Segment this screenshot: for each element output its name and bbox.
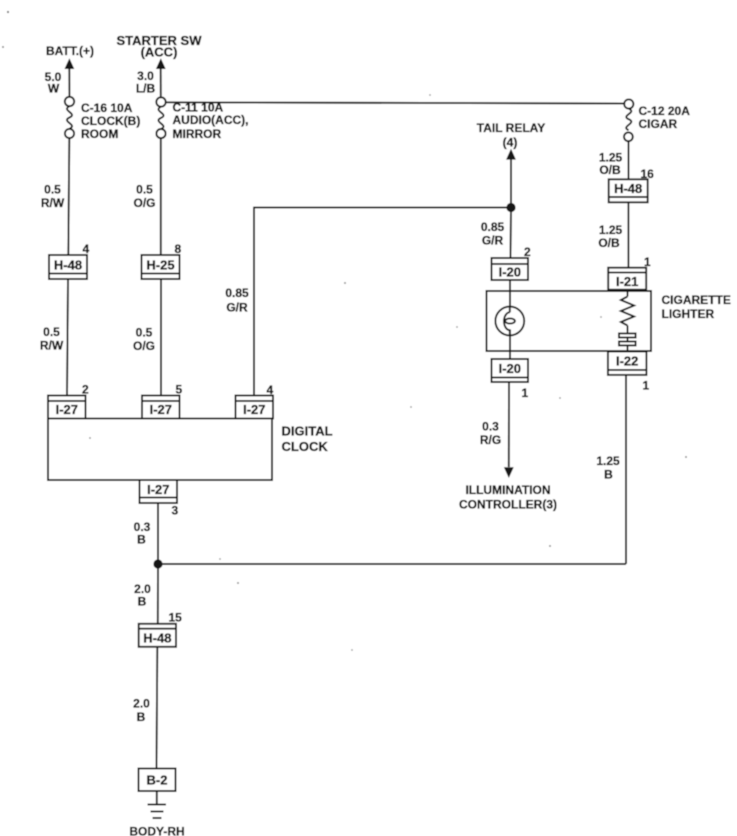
svg-text:H-48: H-48 [54, 258, 82, 273]
connector I-21 pin 1 [608, 268, 646, 290]
wire [253, 207, 255, 396]
connector H-25 [142, 255, 180, 279]
svg-text:BODY-RH: BODY-RH [129, 825, 184, 836]
wire [67, 279, 68, 396]
node BODY-RH [129, 825, 184, 836]
junction [153, 559, 162, 568]
wire [627, 202, 629, 267]
pin 16 [641, 167, 655, 181]
connector I-27 pin 2 [48, 396, 86, 419]
svg-text:0.5: 0.5 [43, 325, 60, 339]
arrow to ILLUMINATION CONTROLLER [504, 467, 514, 478]
svg-text:0.3: 0.3 [482, 420, 499, 434]
svg-text:2.0: 2.0 [133, 697, 150, 711]
node BATT.(+) [46, 44, 94, 58]
wire [628, 141, 630, 179]
svg-text:R/W: R/W [41, 196, 65, 210]
svg-text:1: 1 [522, 386, 529, 400]
svg-text:I-27: I-27 [243, 402, 265, 417]
wire [510, 208, 513, 259]
svg-text:I-27: I-27 [150, 402, 172, 417]
svg-text:H-48: H-48 [143, 631, 171, 646]
connector B-2 [139, 769, 176, 792]
svg-text:I-27: I-27 [56, 402, 78, 417]
wire [160, 279, 162, 396]
wire [254, 207, 511, 209]
svg-text:TAIL RELAY: TAIL RELAY [477, 121, 545, 135]
connector I-27 pin 3 [140, 480, 178, 503]
svg-text:1.25: 1.25 [596, 454, 620, 468]
wire [157, 564, 159, 624]
svg-text:3: 3 [172, 504, 179, 518]
pin 8 [175, 242, 182, 256]
svg-text:C-16 10A: C-16 10A [81, 101, 133, 115]
svg-text:R/W: R/W [40, 339, 64, 353]
pin 1 [522, 386, 529, 400]
wire [158, 563, 626, 565]
lamp (illumination bulb) [495, 307, 524, 336]
svg-text:0.85: 0.85 [225, 286, 249, 300]
svg-text:4: 4 [83, 242, 90, 256]
fuse C-12 20A [624, 99, 633, 141]
svg-text:I-21: I-21 [616, 274, 638, 289]
svg-text:CLOCK: CLOCK [282, 439, 329, 454]
wire [625, 375, 627, 564]
svg-text:B: B [137, 710, 146, 724]
connector H-48 pin 15 [139, 624, 176, 647]
fuse label C-11 10A AUDIO(ACC), MIRROR [173, 101, 249, 142]
pin 4 [267, 383, 274, 397]
label 0.5 R/W [40, 325, 64, 353]
junction [506, 203, 515, 212]
label 0.3 R/G [480, 420, 501, 448]
pin 2 [82, 383, 89, 397]
wire [160, 69, 162, 98]
svg-text:8: 8 [175, 242, 182, 256]
svg-text:ILLUMINATION: ILLUMINATION [465, 483, 550, 497]
wire to fuse C-12 [166, 102, 624, 103]
pin 4 [83, 242, 90, 256]
svg-text:G/R: G/R [226, 301, 248, 315]
pin 3 [172, 504, 179, 518]
label 0.5 O/G [133, 183, 155, 211]
arrow to BATT.(+) [65, 58, 75, 69]
svg-text:0.5: 0.5 [136, 326, 153, 340]
wire [156, 647, 159, 769]
node STARTER SW (ACC) [117, 33, 203, 60]
pin 1 [643, 379, 650, 393]
svg-text:0.5: 0.5 [136, 183, 153, 197]
wire [508, 382, 510, 467]
svg-text:0.85: 0.85 [481, 220, 505, 234]
svg-text:2: 2 [524, 245, 531, 259]
svg-text:AUDIO(ACC),: AUDIO(ACC), [173, 113, 249, 127]
svg-text:CLOCK(B): CLOCK(B) [81, 114, 140, 128]
svg-text:R/G: R/G [480, 433, 501, 447]
label 1.25 O/B [598, 223, 622, 250]
connector I-27 pin 4 [236, 396, 274, 419]
svg-text:0.5: 0.5 [44, 183, 61, 197]
svg-text:I-22: I-22 [616, 354, 638, 369]
svg-text:H-25: H-25 [146, 258, 174, 273]
node TAIL RELAY (4) [477, 121, 545, 150]
connector I-20 pin 1 [492, 359, 529, 382]
svg-text:B: B [137, 533, 146, 547]
pin 1 [644, 255, 651, 269]
label 0.5 O/G [133, 326, 155, 354]
svg-text:CONTROLLER(3): CONTROLLER(3) [459, 498, 557, 512]
svg-text:H-48: H-48 [614, 181, 642, 196]
cigarette lighter box [487, 291, 652, 351]
connector I-22 pin 1 [608, 352, 647, 375]
node ILLUMINATION CONTROLLER(3) [459, 483, 557, 512]
arrow to TAIL RELAY [506, 149, 516, 160]
wire [509, 280, 511, 307]
label 0.85 G/R [225, 286, 249, 315]
svg-text:C-12 20A: C-12 20A [639, 104, 691, 118]
fuse label C-16 10A CLOCK(B) ROOM [81, 101, 140, 141]
svg-text:(4): (4) [503, 136, 518, 150]
svg-text:O/B: O/B [598, 236, 620, 250]
label 0.85 G/R [481, 220, 505, 248]
wire [509, 329, 511, 359]
fuse C-11 10A [156, 97, 165, 138]
svg-text:ROOM: ROOM [81, 127, 118, 141]
svg-text:15: 15 [169, 611, 183, 625]
svg-text:O/G: O/G [133, 339, 155, 353]
ground [148, 805, 167, 819]
svg-text:B: B [604, 468, 613, 482]
svg-text:1.25: 1.25 [599, 223, 623, 237]
arrow to STARTER SW [156, 58, 166, 69]
label CIGARETTE LIGHTER [662, 293, 731, 321]
wire [68, 69, 70, 97]
svg-text:L/B: L/B [136, 82, 156, 96]
label 0.3 B [134, 520, 151, 547]
svg-text:CIGAR: CIGAR [639, 117, 678, 131]
label 1.25 O/B [599, 151, 623, 178]
pin 15 [169, 611, 183, 625]
wire [510, 160, 512, 208]
pin 2 [524, 245, 531, 259]
svg-text:LIGHTER: LIGHTER [662, 307, 715, 321]
svg-text:B: B [138, 595, 147, 609]
label 1.25 B [596, 454, 620, 482]
svg-text:G/R: G/R [482, 234, 504, 248]
connector I-27 pin 5 [142, 396, 180, 419]
svg-text:B-2: B-2 [147, 773, 168, 788]
wire [160, 138, 162, 255]
svg-text:2: 2 [82, 383, 89, 397]
label 2.0 B [133, 697, 150, 725]
heating element resistor [619, 290, 636, 352]
svg-text:O/G: O/G [133, 196, 155, 210]
svg-text:I-20: I-20 [499, 361, 521, 376]
wire [68, 138, 69, 255]
wire [156, 791, 158, 805]
svg-text:1: 1 [643, 379, 650, 393]
label 2.0 B [134, 582, 151, 609]
label 5.0 W [45, 70, 62, 96]
svg-text:BATT.(+): BATT.(+) [46, 44, 94, 58]
svg-text:CIGARETTE: CIGARETTE [662, 293, 731, 307]
label 3.0 L/B [136, 69, 156, 96]
connector I-20 pin 2 [492, 258, 529, 280]
label DIGITAL CLOCK [282, 424, 333, 455]
svg-text:W: W [48, 82, 60, 96]
svg-text:O/B: O/B [599, 163, 621, 177]
svg-text:I-20: I-20 [499, 265, 521, 280]
connector H-48 [49, 255, 87, 279]
fuse C-16 10A [65, 97, 74, 138]
fuse label C-12 20A CIGAR [639, 104, 691, 131]
svg-text:DIGITAL: DIGITAL [282, 424, 333, 439]
svg-text:(ACC): (ACC) [141, 45, 178, 60]
connector H-48 pin 16 [609, 179, 648, 202]
svg-text:I-27: I-27 [147, 482, 169, 497]
digital clock U1 [48, 419, 272, 481]
svg-text:5: 5 [176, 383, 183, 397]
pin 5 [176, 383, 183, 397]
wire [157, 503, 159, 564]
svg-text:MIRROR: MIRROR [173, 127, 222, 141]
label 0.5 R/W [41, 183, 65, 211]
